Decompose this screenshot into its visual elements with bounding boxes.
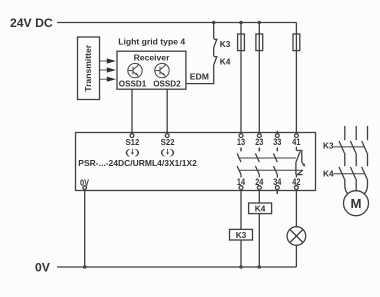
fuse F2 — [256, 23, 263, 134]
svg-text:K4: K4 — [323, 168, 334, 178]
terminal 33 stub — [276, 131, 278, 134]
svg-text:K4: K4 — [255, 204, 266, 214]
wire lamp to 0V rail — [295, 245, 297, 267]
contact 41-42 NC forced-guided — [296, 147, 306, 178]
svg-text:K4: K4 — [220, 56, 231, 66]
svg-text:23: 23 — [255, 137, 263, 147]
light beam arrow 3 — [100, 77, 116, 82]
mechanical linkage line upper — [239, 157, 296, 159]
wire OSSD1 to S12 — [131, 89, 133, 134]
junction dot 0V/relay 0V terminal — [83, 265, 87, 269]
contactor K3 main contacts — [334, 141, 368, 153]
svg-text:S22: S22 — [161, 138, 176, 147]
transmitter box — [78, 37, 100, 100]
receiver box — [117, 51, 186, 89]
wire 42 to lamp — [295, 189, 297, 226]
terminal 34 stub below — [276, 189, 278, 194]
svg-text:0V: 0V — [35, 261, 51, 275]
svg-text:33: 33 — [273, 137, 281, 147]
contact K3 NC (EDM loop) — [214, 39, 218, 48]
light beam arrow 1 — [100, 58, 116, 63]
wire relay 0V to rail — [84, 189, 86, 267]
contact K4 NC (EDM loop) — [214, 56, 218, 65]
three-phase supply lines — [345, 126, 368, 140]
phototransistor OSSD2 symbol — [155, 63, 169, 77]
mechanical linkage line lower — [239, 169, 303, 171]
svg-text:PSR-...-24DC/URML4/3X1/1X2: PSR-...-24DC/URML4/3X1/1X2 — [78, 158, 197, 168]
safety relay U1 box — [76, 133, 316, 191]
junction dot 0V/K3 coil — [239, 265, 243, 269]
wire 0V bottom rail — [57, 266, 296, 268]
terminal 33 — [275, 134, 279, 138]
terminal S22 — [165, 134, 169, 138]
junction dot rail/EDM branch — [212, 21, 216, 25]
light beam arrow 2 — [100, 67, 116, 72]
junction dot rail/fuse F1 — [239, 21, 243, 25]
wire EDM feedback from receiver box to K3/K4 branch — [186, 65, 214, 84]
svg-text:K3: K3 — [323, 140, 334, 150]
terminal S12 — [130, 134, 134, 138]
svg-text:24V DC: 24V DC — [10, 16, 53, 30]
wire EDM branch to 24V rail — [213, 23, 215, 39]
wire OSSD2 to S22 — [166, 89, 168, 134]
contactor K4 main contacts — [334, 167, 368, 179]
svg-text:M: M — [351, 196, 362, 211]
motor M — [344, 191, 369, 216]
svg-text:EDM: EDM — [190, 71, 209, 81]
svg-text:OSSD1: OSSD1 — [119, 79, 147, 88]
svg-text:S12: S12 — [125, 138, 140, 147]
svg-text:Receiver: Receiver — [134, 53, 170, 63]
relay coil K4 — [249, 203, 272, 214]
terminal 23 — [257, 134, 261, 138]
svg-text:OSSD2: OSSD2 — [153, 79, 181, 88]
contact 13-14 NO — [237, 148, 241, 178]
phototransistor OSSD1 symbol — [128, 63, 142, 77]
svg-text:Light grid type 4: Light grid type 4 — [118, 36, 185, 46]
indicator lamp H1 — [287, 227, 306, 246]
wires K4 to motor — [345, 179, 368, 194]
svg-text:K3: K3 — [220, 39, 231, 49]
svg-text:13: 13 — [237, 137, 245, 147]
terminal 13 — [239, 134, 243, 138]
wires between K3 and K4 contacts — [345, 153, 368, 166]
fuse F1 — [238, 23, 245, 134]
wire 24V DC top rail — [57, 22, 296, 24]
svg-text:Transmitter: Transmitter — [83, 44, 93, 91]
svg-text:41: 41 — [292, 137, 300, 147]
terminal 41 — [295, 134, 299, 138]
contact 33-34 NO — [273, 148, 277, 178]
junction dot rail/fuse F2 — [258, 21, 262, 25]
wire 14 to K3 coil — [240, 189, 242, 229]
wire K3 coil to 0V rail — [240, 240, 242, 267]
junction dot 0V/K4 coil — [258, 265, 262, 269]
fuse F3 — [293, 23, 300, 134]
relay coil K3 — [230, 229, 253, 240]
wire 24 to K4 coil — [258, 189, 260, 203]
wire K4 coil to 0V rail — [258, 214, 260, 267]
wire between EDM contacts — [213, 48, 215, 57]
contact 23-24 NO — [255, 148, 259, 178]
svg-text:K3: K3 — [236, 230, 247, 240]
